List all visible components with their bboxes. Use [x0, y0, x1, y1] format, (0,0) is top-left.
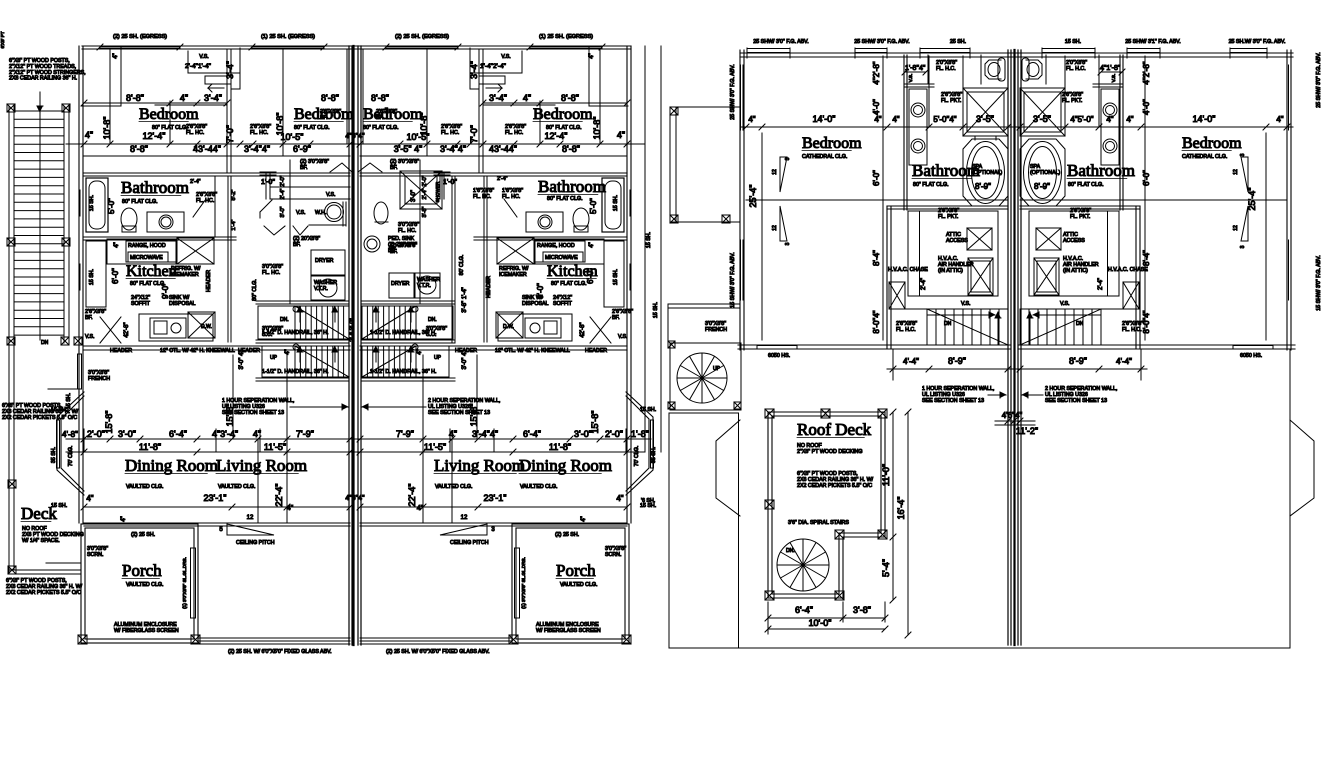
deck posts	[8, 480, 16, 488]
pitch triangles right plan right	[1241, 157, 1248, 192]
bedroom wall right of hall lower	[1135, 206, 1137, 349]
svg-text:SOFFIT: SOFFIT	[553, 301, 573, 307]
svg-text:5'-0": 5'-0"	[589, 198, 598, 214]
svg-text:SHOWER: SHOWER	[435, 181, 440, 202]
svg-text:2X2 CEDAR PICKETS 5.5" O/C: 2X2 CEDAR PICKETS 5.5" O/C	[2, 415, 77, 421]
roof outline bottom	[669, 647, 1290, 649]
svg-text:25 SHW/ 3'0" F.G. ABV.: 25 SHW/ 3'0" F.G. ABV.	[1316, 52, 1322, 107]
svg-text:FL. HC.: FL. HC.	[473, 194, 491, 200]
roof deck spiral stair	[777, 539, 829, 591]
svg-text:7'-9": 7'-9"	[296, 429, 314, 439]
svg-text:4": 4"	[616, 494, 623, 503]
svg-text:4": 4"	[285, 349, 291, 354]
svg-text:MICROWAVE: MICROWAVE	[545, 255, 578, 261]
svg-text:7'-0": 7'-0"	[469, 125, 479, 143]
svg-text:BF.: BF.	[390, 249, 398, 255]
svg-text:HEADER: HEADER	[585, 348, 607, 354]
exterior stair rails	[8, 106, 10, 343]
svg-text:25 SHW/ 3'0" F.G. ABV.: 25 SHW/ 3'0" F.G. ABV.	[753, 39, 808, 45]
svg-text:6050 HS.: 6050 HS.	[768, 353, 790, 359]
svg-text:2'-0": 2'-0"	[422, 175, 428, 186]
svg-text:3'-4": 3'-4"	[204, 93, 222, 103]
door swing bathroom right unit	[504, 199, 517, 217]
svg-text:1'-8": 1'-8"	[631, 429, 649, 439]
stair arrow left unit	[927, 314, 995, 316]
svg-text:ICEMAKER: ICEMAKER	[499, 272, 527, 278]
svg-text:SOFFIT: SOFFIT	[131, 301, 151, 307]
svg-text:8'-0"4": 8'-0"4"	[1142, 310, 1151, 333]
svg-text:1'-4": 1'-4"	[231, 219, 237, 230]
svg-text:4": 4"	[417, 505, 424, 512]
dim line bedrooms	[66, 143, 645, 145]
bedroom wall left of hall upper	[903, 55, 905, 210]
svg-text:3'-0": 3'-0"	[280, 206, 286, 217]
porch left posts	[78, 635, 87, 644]
svg-text:15 SH.: 15 SH.	[640, 503, 656, 509]
svg-text:3'-4"4": 3'-4"4"	[440, 144, 466, 154]
stairs right plan left unit	[927, 309, 1008, 345]
svg-text:MICROWAVE: MICROWAVE	[130, 255, 163, 261]
svg-text:15 SH.: 15 SH.	[51, 503, 67, 509]
svg-text:4": 4"	[589, 53, 595, 58]
left wall lower	[78, 392, 80, 523]
svg-text:V.T.R.: V.T.R.	[417, 283, 431, 289]
svg-text:4"6"4": 4"6"4"	[345, 133, 365, 140]
pitch triangles right plan left	[780, 157, 787, 192]
kitchen counters right unit	[535, 239, 604, 264]
svg-text:12: 12	[772, 225, 778, 231]
svg-text:2"X6" PT WOOD DECKING: 2"X6" PT WOOD DECKING	[797, 449, 862, 455]
dishwasher left unit	[188, 312, 215, 338]
vanity right unit	[1101, 89, 1119, 165]
svg-text:UP: UP	[713, 366, 721, 372]
toilet top left unit	[985, 60, 1001, 79]
spa left unit	[963, 139, 1008, 206]
svg-text:42'-8": 42'-8"	[124, 322, 130, 337]
svg-text:VAULTED CLG.: VAULTED CLG.	[126, 582, 163, 588]
laundry right unit	[389, 273, 414, 298]
svg-text:7'-9": 7'-9"	[396, 429, 414, 439]
svg-text:4": 4"	[113, 53, 119, 58]
upper deck outline	[670, 107, 740, 222]
right plan dim line 14-0	[740, 126, 1293, 128]
svg-text:12: 12	[461, 515, 468, 521]
svg-text:11'-0": 11'-0"	[881, 464, 891, 486]
right plan right wall windows	[1288, 65, 1290, 130]
svg-text:Bedroom: Bedroom	[802, 135, 862, 152]
svg-text:15 SH.: 15 SH.	[89, 195, 95, 211]
svg-text:Living Room: Living Room	[434, 456, 525, 475]
svg-text:FL. HC.: FL. HC.	[505, 130, 523, 136]
stairs DN right unit	[362, 306, 453, 339]
svg-text:4"5'-0": 4"5'-0"	[1070, 115, 1093, 124]
bay window left	[57, 392, 84, 495]
svg-text:Bathroom: Bathroom	[912, 161, 980, 180]
svg-text:VAULTED CLG.: VAULTED CLG.	[560, 582, 597, 588]
bedroom bottom wall right	[1136, 344, 1295, 346]
svg-text:V.S.: V.S.	[501, 54, 511, 60]
svg-text:3'-8": 3'-8"	[853, 605, 871, 615]
party wall flanking walls bedroom band	[346, 50, 348, 144]
roof outline right edge	[1289, 350, 1291, 648]
svg-text:UP: UP	[270, 355, 278, 361]
ceiling pitch left	[227, 524, 274, 535]
closet walls right unit hall	[1029, 211, 1119, 296]
svg-text:2'-4": 2'-4"	[1098, 278, 1104, 290]
door swing bathroom left unit	[193, 199, 206, 217]
svg-text:6050 HS.: 6050 HS.	[1240, 353, 1262, 359]
svg-text:2'-6 3'-0": 2'-6 3'-0"	[350, 318, 356, 341]
porch right window left wall	[515, 548, 520, 618]
deck french door	[78, 354, 82, 389]
right plan outer wall top	[740, 52, 1293, 54]
svg-text:ACCESS: ACCESS	[946, 238, 968, 244]
svg-text:4"1'-8": 4"1'-8"	[1100, 65, 1121, 72]
svg-text:80" FLAT CLG.: 80" FLAT CLG.	[547, 196, 583, 202]
svg-text:BF.: BF.	[300, 165, 308, 171]
svg-text:DRYER: DRYER	[315, 258, 334, 264]
bay window right	[626, 392, 653, 495]
svg-text:SCRN.: SCRN.	[605, 552, 621, 558]
right plan outer wall right	[1286, 50, 1288, 350]
svg-text:8'-9": 8'-9"	[975, 182, 991, 191]
svg-text:80" FLAT CLG.: 80" FLAT CLG.	[551, 281, 587, 287]
svg-text:12" CTL. W/ 42" H. KNEEWALL: 12" CTL. W/ 42" H. KNEEWALL	[495, 348, 570, 354]
svg-text:4"2'-8": 4"2'-8"	[1142, 61, 1151, 84]
living bottom windows left	[198, 637, 350, 639]
svg-text:4": 4"	[114, 242, 120, 247]
core wall x420 right unit	[419, 160, 421, 303]
roof deck posts	[765, 409, 774, 418]
svg-text:FL. H.C.: FL. H.C.	[936, 66, 956, 72]
closet door arrow right	[486, 84, 502, 88]
toilet left unit	[121, 208, 137, 230]
svg-text:V.T.R.: V.T.R.	[314, 286, 328, 292]
svg-text:RANGE, HOOD: RANGE, HOOD	[128, 243, 166, 249]
svg-text:ICEMAKER: ICEMAKER	[171, 272, 199, 278]
svg-text:12: 12	[247, 515, 254, 521]
svg-text:SEE SECTION SHEET 13: SEE SECTION SHEET 13	[1045, 398, 1107, 404]
bathroom bottom wall right unit	[474, 236, 627, 238]
dim line living	[66, 438, 651, 440]
window top 4 (1)25SH	[530, 46, 602, 48]
svg-text:4"2'-8": 4"2'-8"	[872, 61, 881, 84]
svg-text:SCRN.: SCRN.	[87, 552, 103, 558]
exterior stair treads	[14, 110, 64, 112]
spiral stair upper	[677, 353, 727, 403]
svg-text:4": 4"	[86, 494, 93, 503]
svg-text:25 SH.W/ 3'0" F.G. ABV.: 25 SH.W/ 3'0" F.G. ABV.	[1229, 39, 1286, 45]
svg-text:15 SH.: 15 SH.	[646, 232, 652, 248]
svg-text:DISPOSAL: DISPOSAL	[169, 301, 196, 307]
svg-text:4'-0": 4'-0"	[872, 99, 881, 115]
svg-text:2'-4": 2'-4"	[422, 188, 428, 199]
kitchen side counter left unit	[86, 241, 106, 307]
vanity sink right unit	[526, 212, 563, 232]
bedroom dim underline right	[483, 104, 555, 106]
svg-text:70' CLG.: 70' CLG.	[634, 446, 640, 467]
ped sink right unit	[364, 236, 380, 252]
closet shelves right unit	[521, 51, 523, 73]
hvac chase left unit	[889, 282, 905, 309]
svg-text:CEILING PITCH: CEILING PITCH	[450, 540, 489, 546]
party wall right plan	[1007, 50, 1009, 645]
svg-text:V.S.: V.S.	[618, 334, 628, 340]
toilet right unit	[573, 208, 589, 230]
bathroom wall details left	[214, 176, 216, 237]
wall right of WH left unit	[342, 202, 344, 226]
svg-text:10'-8": 10'-8"	[102, 117, 112, 140]
svg-text:2'-0": 2'-0"	[605, 429, 623, 439]
svg-text:6'-9": 6'-9"	[293, 144, 311, 154]
svg-text:2X2 CEDAR PICKETS 5.5" O/C: 2X2 CEDAR PICKETS 5.5" O/C	[797, 483, 872, 489]
svg-text:15 SH.: 15 SH.	[613, 269, 619, 285]
svg-text:25'-4": 25'-4"	[748, 185, 758, 208]
svg-text:4'-8": 4'-8"	[62, 430, 78, 439]
svg-text:10'-8": 10'-8"	[592, 117, 602, 140]
svg-text:6'-0": 6'-0"	[872, 170, 881, 186]
bedroom bottom wall left	[738, 344, 893, 346]
right plan dim line 8-9	[887, 368, 1147, 370]
svg-text:70' CLG.: 70' CLG.	[68, 446, 74, 467]
svg-text:VAULTED CLG.: VAULTED CLG.	[520, 484, 557, 490]
svg-text:22'-4": 22'-4"	[274, 484, 284, 507]
svg-text:4": 4"	[589, 242, 595, 247]
left plan outer wall right	[626, 46, 628, 392]
kitchen header wall right unit	[360, 345, 627, 347]
svg-text:25 SHW/ 3'0" F.G. ABV.: 25 SHW/ 3'0" F.G. ABV.	[854, 39, 909, 45]
svg-text:BF.: BF.	[85, 315, 93, 321]
hvac handler left unit	[968, 258, 993, 295]
svg-text:2X6 CEDAR RAILING 36" H.: 2X6 CEDAR RAILING 36" H.	[9, 76, 77, 82]
svg-text:12'-4": 12'-4"	[545, 131, 568, 141]
svg-text:8'-9": 8'-9"	[1034, 182, 1050, 191]
svg-text:43'-44": 43'-44"	[193, 144, 221, 154]
bathroom bottom wall left unit	[84, 236, 236, 238]
bathtub left unit	[86, 178, 108, 232]
stair walls	[256, 300, 349, 302]
right plan top windows	[747, 49, 790, 53]
svg-text:6'X6' PT: 6'X6' PT	[0, 31, 5, 48]
svg-text:(IN ATTIC): (IN ATTIC)	[938, 268, 963, 274]
svg-text:7'-0": 7'-0"	[225, 125, 235, 143]
svg-text:CEILING PITCH: CEILING PITCH	[236, 540, 275, 546]
linen closet left unit	[239, 48, 241, 89]
svg-text:4'-4": 4'-4"	[903, 357, 919, 366]
vanity sink left unit	[147, 212, 184, 232]
bedroom dim underline left	[155, 104, 227, 106]
svg-text:W/ 1/4" SPACE.: W/ 1/4" SPACE.	[22, 538, 60, 544]
svg-text:9'-0": 9'-0"	[161, 283, 170, 299]
svg-text:Roof Deck: Roof Deck	[797, 420, 872, 439]
svg-text:8'-8": 8'-8"	[562, 144, 580, 154]
svg-text:8'-9": 8'-9"	[1069, 356, 1087, 366]
svg-text:1'-4"2'-4": 1'-4"2'-4"	[480, 63, 507, 70]
svg-text:3'-8": 3'-8"	[422, 206, 428, 217]
svg-text:FL. PKT.: FL. PKT.	[938, 214, 958, 220]
hall wall 2 left unit	[265, 172, 267, 199]
svg-text:8'-8": 8'-8"	[371, 93, 389, 103]
svg-text:3'-0": 3'-0"	[411, 190, 417, 202]
svg-text:3: 3	[491, 527, 495, 533]
svg-text:6'-4": 6'-4"	[523, 429, 541, 439]
svg-text:25 SHW/ 3'0" F.G. ABV.: 25 SHW/ 3'0" F.G. ABV.	[730, 64, 736, 119]
svg-text:V.S.: V.S.	[296, 210, 306, 216]
svg-text:15 SH.: 15 SH.	[89, 269, 95, 285]
svg-text:Bedroom: Bedroom	[139, 106, 199, 123]
kitchen island left unit	[139, 314, 213, 341]
svg-text:4": 4"	[617, 130, 625, 140]
svg-text:ACCESS: ACCESS	[1063, 238, 1085, 244]
svg-text:FRENCH: FRENCH	[88, 376, 110, 382]
svg-text:W/ FIBERGLASS SCREEN: W/ FIBERGLASS SCREEN	[114, 628, 179, 634]
svg-text:V.S.: V.S.	[1060, 301, 1070, 307]
closet walls left unit hall	[908, 211, 998, 296]
right wall lower	[626, 392, 628, 523]
svg-text:15 SH.: 15 SH.	[613, 195, 619, 211]
svg-text:2X2 CEDAR PICKETS 5.5" O/C: 2X2 CEDAR PICKETS 5.5" O/C	[6, 590, 81, 596]
svg-text:2'-4"1'-4": 2'-4"1'-4"	[185, 63, 212, 70]
svg-text:5'-0": 5'-0"	[107, 198, 116, 214]
dim line 23-1	[84, 506, 350, 508]
svg-text:15 SHW/ 3'0" F.G. ABV.: 15 SHW/ 3'0" F.G. ABV.	[730, 252, 736, 307]
svg-text:43'-44": 43'-44"	[489, 144, 517, 154]
svg-text:FRENCH: FRENCH	[705, 327, 727, 333]
svg-text:8'-8": 8'-8"	[126, 93, 144, 103]
svg-text:(2) 25 SH.: (2) 25 SH.	[131, 532, 155, 538]
stairs DN left unit	[258, 306, 349, 339]
svg-text:4": 4"	[748, 115, 755, 124]
svg-text:15 SH.: 15 SH.	[653, 302, 659, 318]
svg-text:(1) 3'0"X6'8" SL.GL.DRS.: (1) 3'0"X6'8" SL.GL.DRS.	[182, 557, 187, 609]
svg-text:15 SH.: 15 SH.	[66, 393, 72, 409]
svg-text:Porch: Porch	[122, 561, 162, 580]
linen closet right unit	[469, 48, 471, 89]
right plan outer wall left	[739, 50, 741, 350]
svg-text:3: 3	[1240, 245, 1246, 248]
svg-text:1-1/2" D. HANDRAIL, 36" H.: 1-1/2" D. HANDRAIL, 36" H.	[262, 369, 328, 375]
entry closet left unit	[120, 46, 122, 106]
spiral stair deck posts	[668, 341, 675, 348]
kitchen side counter right unit	[604, 241, 624, 307]
svg-text:RANGE, HOOD: RANGE, HOOD	[537, 243, 575, 249]
roof bay right	[1290, 420, 1314, 516]
svg-text:35 SH.: 35 SH.	[51, 447, 57, 463]
svg-text:4": 4"	[1126, 115, 1133, 124]
svg-text:8'-8": 8'-8"	[561, 93, 579, 103]
svg-text:15 SH.: 15 SH.	[1065, 39, 1081, 45]
bedroom wall right of hall upper	[1119, 55, 1121, 210]
right plan left wall windows	[740, 65, 742, 130]
laundry left unit	[311, 250, 345, 275]
svg-text:Living Room: Living Room	[216, 456, 307, 475]
svg-text:80" FLAT CLG.: 80" FLAT CLG.	[913, 182, 949, 188]
svg-text:H.V.A.C. CHASE: H.V.A.C. CHASE	[1108, 267, 1148, 273]
svg-text:4'6"4": 4'6"4"	[1002, 411, 1023, 420]
svg-text:3'-4": 3'-4"	[489, 93, 507, 103]
svg-text:15'-8": 15'-8"	[469, 404, 479, 427]
svg-text:FL. HC.: FL. HC.	[262, 270, 280, 276]
svg-text:35 SH.: 35 SH.	[651, 447, 657, 463]
svg-text:3: 3	[785, 242, 791, 245]
svg-text:HEADER: HEADER	[110, 348, 132, 354]
svg-text:15'-8": 15'-8"	[225, 404, 235, 427]
stairs right plan right unit	[1020, 309, 1101, 345]
entry closet right unit	[588, 46, 590, 106]
svg-text:5'-0"4": 5'-0"4"	[933, 115, 956, 124]
svg-text:15 SHW/ 3'0" F.G. ABV.: 15 SHW/ 3'0" F.G. ABV.	[1316, 255, 1322, 310]
svg-text:FL. HC.: FL. HC.	[186, 130, 204, 136]
svg-text:4": 4"	[581, 516, 587, 521]
svg-text:VAULTED CLG.: VAULTED CLG.	[218, 484, 255, 490]
svg-text:15'-8": 15'-8"	[104, 411, 114, 434]
spa right unit	[1020, 139, 1065, 206]
svg-text:25 SH.: 25 SH.	[950, 39, 966, 45]
svg-text:5: 5	[219, 527, 223, 533]
svg-text:Bathroom: Bathroom	[538, 177, 606, 196]
svg-text:(2) 25 SH.: (2) 25 SH.	[555, 532, 579, 538]
svg-text:8'-4": 8'-4"	[872, 250, 881, 266]
dishwasher right unit	[496, 312, 523, 338]
svg-text:6'-0": 6'-0"	[586, 268, 595, 284]
svg-text:BF.: BF.	[293, 242, 301, 248]
svg-text:8'-8": 8'-8"	[321, 93, 339, 103]
svg-text:11'-5": 11'-5"	[264, 442, 286, 452]
bath core walls right unit	[1093, 83, 1123, 85]
svg-text:4": 4"	[1276, 115, 1283, 124]
roof deck railing	[768, 412, 885, 598]
svg-text:3'-5" 4": 3'-5" 4"	[394, 144, 423, 154]
bifold doors left unit	[264, 226, 285, 235]
svg-text:Kitchen: Kitchen	[126, 263, 177, 280]
svg-text:11'-2": 11'-2"	[1016, 426, 1038, 436]
svg-text:2'-4": 2'-4"	[921, 278, 927, 290]
svg-text:FL. HC.: FL. HC.	[398, 228, 416, 234]
kitchen counters left unit	[107, 239, 176, 264]
svg-text:FL. H.C.: FL. H.C.	[896, 327, 916, 333]
hvac handler right unit	[1034, 258, 1059, 295]
svg-text:6'-0": 6'-0"	[1142, 170, 1151, 186]
svg-text:14'-0": 14'-0"	[1193, 114, 1216, 124]
svg-text:FL. PKT.: FL. PKT.	[1070, 214, 1090, 220]
svg-text:CATHEDRAL CLG.: CATHEDRAL CLG.	[1182, 154, 1227, 160]
svg-text:10'-8": 10'-8"	[419, 113, 429, 136]
svg-text:80" FLAT CLG.: 80" FLAT CLG.	[122, 199, 158, 205]
svg-text:10'-8": 10'-8"	[275, 113, 285, 136]
roof line left horiz	[669, 412, 739, 414]
svg-text:4": 4"	[85, 130, 93, 140]
porch right	[512, 524, 629, 643]
window top 3 (2)25SH	[386, 46, 458, 48]
closet wall right unit	[482, 49, 484, 173]
svg-text:4'-4": 4'-4"	[1116, 357, 1132, 366]
svg-text:BF.: BF.	[390, 165, 398, 171]
svg-text:8'-8": 8'-8"	[130, 144, 148, 154]
svg-text:3'-0": 3'-0"	[118, 429, 136, 439]
svg-text:6'-4": 6'-4"	[169, 429, 187, 439]
deck outline	[8, 343, 10, 574]
svg-text:(IN ATTIC): (IN ATTIC)	[1063, 268, 1088, 274]
svg-text:W/ FIBERGLASS SCREEN: W/ FIBERGLASS SCREEN	[536, 628, 601, 634]
svg-text:V.S.: V.S.	[199, 54, 209, 60]
svg-text:DN.: DN.	[280, 317, 289, 323]
kitchen island right unit	[498, 314, 572, 341]
svg-text:2'-4": 2'-4"	[190, 179, 201, 185]
living bottom windows right	[360, 637, 512, 639]
svg-text:3'-0" 4": 3'-0" 4"	[239, 350, 245, 369]
kitchen header wall left unit	[84, 345, 350, 347]
right plan dim extension verticals	[928, 56, 930, 127]
